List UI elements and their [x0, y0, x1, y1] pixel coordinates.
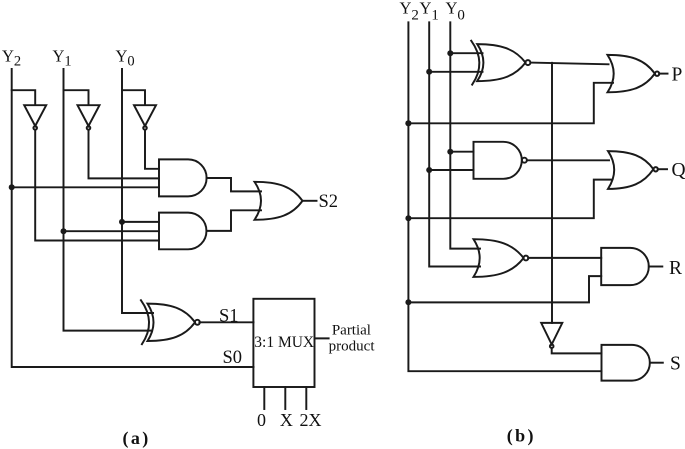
- svg-text:3:1 MUX: 3:1 MUX: [254, 334, 314, 351]
- svg-text:S1: S1: [219, 307, 239, 327]
- svg-text:S2: S2: [319, 192, 339, 212]
- svg-text:Partial: Partial: [332, 323, 371, 339]
- svg-text:product: product: [329, 339, 376, 355]
- svg-text:S: S: [670, 353, 681, 374]
- svg-text:0: 0: [257, 410, 266, 430]
- svg-text:2X: 2X: [300, 410, 322, 430]
- svg-text:P: P: [672, 65, 683, 86]
- svg-text:(a): (a): [122, 428, 150, 449]
- svg-text:Q: Q: [672, 160, 685, 181]
- svg-text:S0: S0: [223, 348, 243, 368]
- svg-text:(b): (b): [507, 426, 536, 447]
- svg-text:X: X: [280, 410, 293, 430]
- svg-text:R: R: [669, 258, 682, 279]
